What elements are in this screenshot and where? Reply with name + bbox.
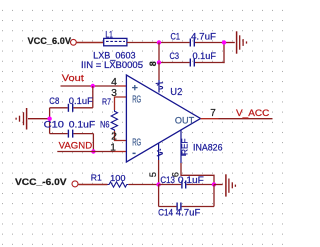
power port VCC_-6.0V circle	[72, 181, 78, 187]
svg-text:R7: R7	[102, 97, 111, 107]
wire VCC to L1	[77, 42, 104, 44]
capacitor C10 row wires	[50, 133, 68, 135]
capacitor C8 row wires	[50, 107, 68, 109]
junction bottom rail left	[156, 182, 160, 186]
svg-text:V_ACC: V_ACC	[236, 108, 269, 119]
label +	[132, 85, 138, 90]
resistor R1	[108, 182, 129, 187]
pin 5 power squiggle	[157, 149, 163, 156]
svg-text:C10: C10	[44, 119, 64, 129]
ground (bottom right)	[226, 174, 236, 196]
wire / pin 8 vertical into U2	[158, 63, 160, 81]
capacitor C14 row wires	[159, 206, 177, 208]
pin 6 tick	[181, 154, 186, 156]
wire Vout row (pin 4)	[61, 85, 119, 87]
wire junction down right C3	[223, 43, 225, 64]
capacitor C1	[189, 39, 191, 47]
junction C3 left	[157, 60, 161, 64]
svg-text:2: 2	[111, 131, 117, 143]
wire pin 3 stub	[115, 97, 127, 110]
svg-text:0.1uF: 0.1uF	[178, 175, 205, 185]
wire C10 right vertical	[92, 134, 94, 152]
pin 6 REF vertical	[180, 130, 182, 163]
svg-text:7: 7	[210, 108, 216, 119]
svg-text:C8: C8	[49, 96, 59, 106]
junction C1 right	[222, 40, 226, 44]
capacitor C14 loop left vertical	[158, 185, 160, 207]
svg-text:INA826: INA826	[193, 142, 223, 152]
svg-text:VCC_-6.0V: VCC_-6.0V	[15, 177, 67, 187]
svg-text:0.1uF: 0.1uF	[69, 119, 96, 129]
ground (top right)	[237, 31, 247, 53]
capacitor C10	[67, 130, 69, 138]
wire stub to ground top	[224, 42, 235, 44]
svg-text:C3: C3	[170, 51, 180, 61]
svg-text:L1: L1	[105, 29, 113, 39]
wire L1 to C1 row	[127, 42, 190, 44]
pin 5 vertical	[158, 143, 160, 160]
junction Vout / C8	[91, 84, 95, 88]
svg-text:1: 1	[110, 141, 116, 153]
wire C8 right vertical	[92, 86, 94, 108]
capacitor C3	[189, 59, 191, 67]
junction VAGND row	[91, 149, 95, 153]
junction top rail at vertical	[157, 40, 161, 44]
svg-text:N6: N6	[100, 120, 110, 130]
pin 7 output wire	[201, 118, 219, 120]
svg-text:R1: R1	[91, 173, 102, 183]
svg-text:4.7uF: 4.7uF	[176, 207, 201, 217]
junction bottom rail right	[212, 182, 216, 186]
wire C1 to right junction	[195, 42, 225, 44]
svg-text:0.1uF: 0.1uF	[193, 51, 217, 61]
wire R1 to junction	[128, 184, 158, 186]
wire vertical between C1 and C3 rows	[158, 43, 160, 63]
svg-text:REF: REF	[180, 139, 190, 156]
wire VCC- to R1	[78, 184, 107, 186]
svg-text:IIN = LXB0005: IIN = LXB0005	[81, 60, 143, 70]
wire pin 2 stub	[115, 131, 127, 141]
capacitor C13	[181, 181, 183, 189]
junction ground stub	[47, 117, 51, 121]
svg-text:Vout: Vout	[62, 73, 84, 84]
svg-text:8: 8	[148, 61, 158, 66]
wire left vertical C8-C10	[49, 108, 51, 134]
svg-text:C14: C14	[158, 207, 173, 217]
svg-text:C13: C13	[160, 175, 175, 185]
wire stub to ground bottom	[214, 184, 223, 186]
capacitor C14 loop right vertical	[213, 185, 215, 207]
label minus	[133, 153, 136, 155]
wire VAGND row (pin 1)	[57, 151, 114, 153]
svg-text:5: 5	[148, 172, 158, 177]
capacitor C14	[176, 203, 178, 211]
inductor L1	[104, 38, 127, 45]
power port VCC_6.0V circle	[71, 39, 77, 45]
wire stub to ground left	[28, 118, 50, 120]
capacitor C8	[67, 104, 69, 112]
svg-text:RG: RG	[132, 95, 141, 106]
capacitor C13 row wires	[159, 184, 182, 186]
svg-text:100: 100	[110, 173, 126, 183]
svg-text:RG: RG	[132, 138, 141, 149]
svg-text:VAGND: VAGND	[59, 140, 93, 151]
capacitor C3 row wires	[159, 62, 190, 64]
svg-text:U2: U2	[170, 86, 182, 98]
pin 8 power squiggle	[156, 83, 163, 89]
svg-text:LXB_0603: LXB_0603	[93, 50, 135, 60]
resistor R7	[111, 110, 117, 131]
svg-text:VCC_6.0V: VCC_6.0V	[28, 36, 72, 46]
svg-text:OUT: OUT	[175, 115, 195, 125]
svg-text:4.7uF: 4.7uF	[191, 32, 217, 42]
svg-text:C1: C1	[171, 32, 181, 42]
svg-text:0.1uF: 0.1uF	[69, 96, 94, 106]
op-amp U2 triangle	[126, 75, 200, 162]
ground (left)	[16, 108, 27, 130]
